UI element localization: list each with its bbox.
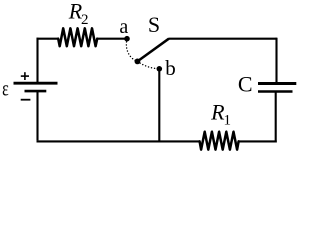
- svg-text:1: 1: [224, 113, 232, 129]
- node b: [157, 66, 163, 72]
- switch blade tip dot: [135, 59, 141, 65]
- wire bottom right horizontal: [238, 140, 277, 142]
- battery plus sign: [21, 75, 29, 77]
- resistor R2: [58, 28, 97, 46]
- wire top-left horizontal: [37, 38, 59, 40]
- switch dotted arc: [126, 42, 158, 69]
- wire right vertical upper: [275, 38, 277, 83]
- node a: [124, 36, 130, 42]
- svg-text:ε: ε: [2, 77, 9, 101]
- svg-text:b: b: [165, 56, 176, 80]
- switch S blade: [137, 39, 168, 62]
- wire bottom horizontal: [37, 140, 201, 142]
- battery bottom plate: [25, 90, 47, 93]
- wire middle vertical from b: [158, 69, 160, 143]
- svg-text:S: S: [148, 12, 160, 37]
- wire right vertical lower: [275, 92, 277, 143]
- wire left vertical upper: [36, 38, 38, 83]
- resistor R1: [200, 132, 239, 150]
- label epsilon (emf): [2, 77, 9, 101]
- wire R2 to node a: [97, 38, 127, 40]
- svg-text:C: C: [238, 71, 253, 96]
- wire top-right horizontal: [169, 38, 277, 40]
- battery top plate: [14, 82, 58, 85]
- battery minus sign: [21, 99, 31, 101]
- capacitor C top plate: [258, 82, 296, 85]
- svg-text:2: 2: [81, 12, 89, 28]
- wire left vertical lower: [36, 92, 38, 140]
- svg-text:a: a: [119, 16, 128, 38]
- capacitor C bottom plate: [258, 90, 293, 93]
